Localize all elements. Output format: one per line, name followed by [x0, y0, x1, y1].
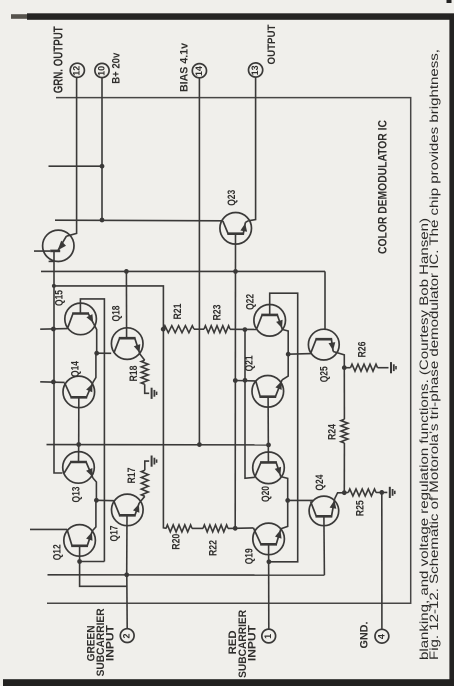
wire Q25 collector link	[288, 353, 311, 356]
transistor Q15	[65, 303, 97, 335]
transistor Q24	[309, 496, 339, 526]
junction dot R21 left	[161, 327, 166, 332]
junction dot green input	[124, 572, 129, 577]
transistor Q18	[111, 328, 143, 360]
label Q15	[54, 290, 66, 306]
wire terminal 12 riser	[66, 77, 76, 236]
label GND.	[358, 622, 370, 649]
wire Q15 base loop	[80, 299, 104, 562]
wire Q13 emitter	[93, 478, 97, 500]
wire R21-R23 link	[194, 328, 204, 330]
junction dot Q15 emitter node	[94, 351, 99, 356]
svg-text:BIAS 4.1v: BIAS 4.1v	[178, 42, 190, 92]
wire Q18 emitter to R18	[140, 354, 145, 360]
svg-text:R21: R21	[172, 304, 184, 320]
svg-text:Q13: Q13	[71, 487, 83, 503]
resistor R26	[351, 364, 378, 371]
wire Q16 base drop / left bus	[54, 251, 62, 473]
junction dot Q23 base line	[233, 269, 238, 274]
label GREEN SUBCARRIER INPUT	[85, 608, 116, 676]
wire R17 to ground	[145, 461, 149, 470]
transistor Q16 (unlabeled, PNP)	[43, 230, 74, 261]
page frame right bar	[447, 0, 454, 686]
svg-text:B+ 20v: B+ 20v	[111, 52, 123, 84]
junction dot Q13 base	[76, 442, 81, 447]
resistor R23	[204, 326, 230, 333]
wire Q17 base drop	[126, 515, 128, 574]
wire Q19 collector link	[235, 527, 253, 529]
wire R26 to ground	[378, 367, 389, 369]
svg-text:R18: R18	[128, 366, 140, 382]
label Q17	[109, 526, 121, 542]
label R20	[171, 534, 183, 550]
svg-text:INPUT: INPUT	[246, 625, 258, 661]
junction dot bus Q15	[51, 327, 56, 332]
label R18	[128, 366, 140, 382]
wire R18 to ground	[145, 384, 150, 393]
junction dot Q18 base	[124, 269, 129, 274]
junction dot R25 left	[342, 490, 347, 495]
wire Q14 collector	[40, 381, 64, 384]
wire Q19 emitter riser	[281, 500, 288, 528]
svg-text:Q23: Q23	[226, 190, 238, 206]
wire green rail y575	[48, 574, 325, 576]
junction dot Q25 base feed	[286, 352, 291, 357]
wire Q20 emitter drop	[281, 477, 288, 501]
svg-text:R17: R17	[126, 468, 138, 484]
svg-text:Q20: Q20	[260, 486, 272, 502]
junction dot bus Q14	[51, 380, 56, 385]
wire Q17 emitter to R17	[139, 496, 145, 503]
svg-text:14: 14	[194, 66, 204, 76]
wire R20-R22 link	[192, 527, 203, 529]
transistor Q21	[252, 376, 284, 408]
label Q23	[226, 190, 238, 206]
ground for R26	[391, 362, 396, 373]
transistor Q14	[63, 376, 95, 408]
wire Q14 base drop	[78, 397, 80, 444]
junction dot R22 right	[233, 526, 238, 531]
label Q13	[71, 487, 83, 503]
resistor R24	[341, 419, 348, 443]
junction dot Q12 base	[77, 559, 82, 564]
wire Q23 base vertical	[234, 235, 236, 528]
wire Q23 emitter link	[245, 221, 248, 223]
terminal 2 green input	[120, 629, 134, 643]
caption line 1	[427, 49, 441, 660]
svg-text:GRN. OUTPUT: GRN. OUTPUT	[52, 26, 66, 93]
page frame bottom bar	[3, 679, 454, 686]
wire Q16 lower stub	[49, 260, 55, 262]
wire base line y445	[47, 444, 269, 446]
svg-text:OUTPUT: OUTPUT	[266, 24, 278, 64]
label OUTPUT	[266, 24, 278, 64]
ground for R17	[152, 456, 157, 467]
junction dot red emitter node	[285, 498, 290, 503]
svg-text:R22: R22	[207, 540, 219, 556]
junction dot Q19 base	[267, 559, 272, 564]
svg-text:R25: R25	[354, 500, 366, 516]
svg-text:Q17: Q17	[109, 526, 121, 542]
wire terminal 2 riser	[126, 575, 128, 629]
svg-text:Q12: Q12	[51, 544, 63, 560]
terminal 10 B+	[95, 63, 109, 77]
wire Q12 collector stub	[30, 528, 67, 530]
terminal 4 ground	[375, 629, 389, 643]
IC box outline	[47, 98, 411, 604]
junction dot R25 right	[379, 490, 384, 495]
label Q14	[70, 360, 82, 377]
wire R26 lead left	[344, 367, 350, 369]
wire Q18 collector link	[97, 352, 112, 354]
svg-text:Q19: Q19	[244, 548, 256, 564]
label R24	[327, 423, 339, 440]
junction dot bias-445	[197, 442, 202, 447]
wire Q15 collector	[40, 328, 67, 331]
wire B+ rail to Q23 collector	[55, 219, 223, 222]
wire terminal 13 riser	[248, 77, 255, 221]
page frame top bar	[11, 13, 454, 19]
transistor Q25	[308, 329, 339, 360]
svg-text:2: 2	[122, 633, 132, 638]
terminal 14 BIAS	[192, 64, 206, 78]
wire Q22 collector vertical	[245, 330, 255, 479]
wire Q12 base to Q15 loop	[80, 561, 105, 563]
svg-text:4: 4	[376, 634, 386, 639]
wire Q13 base riser	[78, 445, 80, 463]
caption line 2	[417, 218, 431, 660]
resistor R22	[203, 525, 228, 532]
wire R24 bottom lead	[343, 443, 345, 493]
svg-text:COLOR DEMODULATOR IC: COLOR DEMODULATOR IC	[376, 119, 389, 254]
terminal 13 OUTPUT	[249, 63, 263, 77]
transistor Q23	[220, 213, 252, 245]
label Q12	[51, 544, 63, 560]
transistor Q19	[253, 523, 285, 555]
svg-text:Q25: Q25	[319, 366, 331, 382]
wire R24 top lead	[343, 368, 345, 420]
junction dot Q21 base line	[266, 443, 271, 448]
wire Q21 collector link	[235, 380, 256, 383]
label R26	[357, 342, 369, 358]
svg-text:R24: R24	[327, 423, 339, 440]
wire node line y286 to R21	[54, 286, 164, 329]
wire Q16 collector stub	[34, 250, 50, 252]
resistor R18	[141, 360, 148, 384]
label R22	[207, 540, 219, 556]
ground for R18	[152, 388, 157, 399]
wire stub node B+ upper	[49, 165, 103, 167]
label Q19	[244, 548, 256, 564]
svg-text:GND.: GND.	[358, 622, 370, 649]
wire Q14 emitter riser	[93, 353, 96, 382]
transistor Q17	[112, 494, 144, 526]
svg-text:blanking, and voltage regulati: blanking, and voltage regulation functio…	[417, 218, 431, 660]
label Q22	[245, 294, 257, 310]
label Q20	[260, 486, 272, 502]
wire Q25 base drop	[324, 271, 326, 330]
wire green step link	[80, 562, 127, 587]
wire gnd riser	[381, 492, 383, 629]
transistor Q12	[64, 525, 96, 557]
svg-text:R23: R23	[212, 305, 224, 321]
wire Q24 base drop	[323, 516, 326, 575]
wire Q12 emitter riser	[92, 500, 96, 531]
ground for R25	[390, 487, 395, 498]
junction dot Q21 collector b	[243, 378, 248, 383]
junction dot B+ stub	[100, 164, 105, 169]
svg-text:1: 1	[263, 634, 273, 639]
wire Q24 emitter	[335, 493, 345, 499]
svg-text:12: 12	[72, 66, 82, 76]
wire R25 to ground	[376, 491, 387, 493]
junction dot R26 node	[342, 365, 347, 370]
svg-text:INPUT: INPUT	[104, 625, 116, 661]
svg-text:Q21: Q21	[244, 355, 256, 371]
transistor Q20	[253, 452, 285, 484]
wire Q22 base loop	[269, 293, 298, 562]
label R21	[172, 304, 184, 320]
label B+ 20v	[111, 52, 123, 84]
wire Q12 base drop	[79, 546, 81, 562]
junction dot Q22 collector node	[243, 327, 248, 332]
terminal 1 red input	[262, 629, 276, 643]
wire Q21-Q20 base link	[267, 397, 269, 462]
terminal 12 GRN. OUTPUT	[70, 63, 84, 77]
wire R25 lead left	[344, 492, 348, 494]
label RED SUBCARRIER INPUT	[227, 610, 258, 678]
label Q24	[314, 474, 326, 491]
junction dot B+ rail	[100, 218, 105, 223]
wire terminal 14 bias riser	[198, 78, 200, 445]
resistor R20	[166, 525, 192, 532]
label R23	[212, 305, 224, 321]
svg-text:Q14: Q14	[70, 360, 82, 377]
resistor R21	[163, 326, 194, 333]
svg-text:Q24: Q24	[314, 474, 326, 491]
transistor Q22	[254, 305, 286, 337]
wire Q19 base drop	[268, 544, 270, 629]
junction dot Q21 collector a	[233, 378, 238, 383]
wire terminal 10 riser	[101, 78, 103, 220]
svg-text:10: 10	[96, 66, 106, 76]
wire Q17 collector link	[96, 499, 114, 501]
svg-text:Q18: Q18	[110, 306, 122, 322]
label COLOR DEMODULATOR IC	[376, 119, 389, 254]
wire Q24 collector link	[288, 499, 314, 501]
label R25	[354, 500, 366, 516]
wire node line y271	[41, 270, 325, 272]
label GRN. OUTPUT	[52, 26, 66, 93]
label BIAS 4.1v	[178, 42, 190, 92]
label Q21	[244, 355, 256, 371]
wire Q25 emitter	[333, 352, 344, 368]
wire R23 to Q22 collector	[230, 328, 256, 330]
wire R21-R20 vertical link	[163, 329, 166, 528]
svg-text:Q22: Q22	[245, 294, 257, 310]
wire Q15 emitter	[94, 324, 97, 354]
resistor R17	[141, 470, 148, 496]
transistor Q13	[63, 452, 95, 484]
wire Q18 base riser	[125, 271, 127, 338]
wire Q22-Q21 emitters	[282, 330, 288, 380]
svg-text:Q15: Q15	[54, 290, 66, 306]
svg-text:R20: R20	[171, 534, 183, 550]
resistor R25	[348, 489, 376, 496]
junction dot bus-286	[52, 284, 56, 288]
wire R22 to dot	[228, 527, 235, 529]
junction dot Q13 emitter node	[94, 498, 99, 503]
label R17	[126, 468, 138, 484]
label Q25	[319, 366, 331, 382]
svg-text:13: 13	[250, 65, 260, 75]
label Q18	[110, 306, 122, 322]
svg-text:R26: R26	[357, 342, 369, 358]
